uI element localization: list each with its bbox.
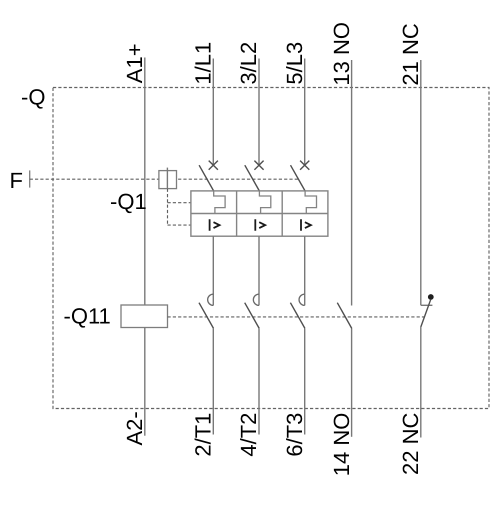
svg-text:-Q: -Q: [21, 84, 45, 109]
breaker housing middle line: [191, 213, 328, 215]
breaker contact cross pole 2: [254, 161, 263, 170]
wire 5/L3: [304, 59, 306, 166]
wire pole 1 below housing: [212, 236, 214, 305]
aux NC fixed contact bar: [421, 304, 433, 306]
svg-text:5/L3: 5/L3: [282, 42, 307, 85]
svg-text:-Q11: -Q11: [64, 304, 111, 329]
terminal square F: [159, 171, 177, 189]
trip linkage dashed line from F: [30, 178, 299, 180]
svg-text:1/L1: 1/L1: [191, 42, 216, 85]
wire A1 (top): [144, 58, 146, 306]
wire 3/L2: [258, 59, 260, 166]
trip linkage dashed branch to magnetic release: [168, 202, 191, 204]
svg-text:14 NO: 14 NO: [329, 413, 354, 477]
breaker blade pole 1: [199, 165, 214, 191]
svg-text:21 NC: 21 NC: [398, 23, 423, 85]
magnetic release latch pole 3: [305, 191, 316, 214]
mechanical linkage dashed (coil to contacts): [168, 316, 425, 318]
svg-text:3/L2: 3/L2: [236, 42, 261, 85]
wire A2 (bottom of coil): [144, 328, 146, 436]
main contact blade pole 1: [199, 303, 214, 329]
overload release symbol I> pole 3: [301, 219, 311, 231]
wire pole 3 below housing: [304, 236, 306, 305]
breaker blade pole 2: [245, 165, 260, 191]
overload release symbol I> pole 1: [210, 219, 220, 231]
svg-text:22 NC: 22 NC: [398, 412, 423, 474]
overload release symbol I> pole 2: [255, 219, 265, 231]
wire 2/T1: [212, 328, 214, 434]
wire 14 NO: [351, 329, 353, 437]
wire 13 NO: [351, 60, 353, 306]
wire pole 2 below housing: [258, 236, 260, 305]
breaker contact cross pole 3: [300, 161, 309, 170]
breaker housing divider 1: [236, 191, 238, 236]
svg-text:13 NO: 13 NO: [329, 22, 354, 86]
trip linkage dashed branch to overload release: [168, 224, 191, 226]
enclosure border -Q (dashed): [53, 88, 489, 409]
coil -Q11: [121, 305, 168, 328]
svg-text:-Q1: -Q1: [110, 189, 147, 214]
wire 1/L1: [212, 59, 214, 166]
main contact arc pole 3: [299, 294, 305, 305]
trip linkage dashed vertical below F square: [167, 189, 169, 225]
main contact blade pole 3: [290, 303, 305, 329]
wire through F square: [166, 168, 168, 189]
wire 6/T3: [304, 328, 306, 434]
aux NC blade: [421, 300, 431, 327]
breaker -Q1 housing: [191, 191, 328, 236]
magnetic release latch pole 1: [214, 191, 225, 214]
breaker contact cross pole 1: [209, 161, 218, 170]
magnetic release latch pole 2: [259, 191, 270, 214]
main contact blade pole 2: [245, 303, 260, 329]
wire 21 NC: [420, 60, 422, 305]
svg-text:A1+: A1+: [122, 43, 147, 83]
wire 22 NC: [420, 327, 422, 438]
main contact arc pole 2: [253, 294, 259, 305]
aux NO contact blade: [337, 303, 352, 329]
main contact arc pole 1: [208, 294, 214, 305]
wire 4/T2: [258, 328, 260, 434]
svg-text:2/T1: 2/T1: [191, 413, 216, 457]
aux NC dot: [428, 294, 434, 300]
svg-text:4/T2: 4/T2: [236, 413, 261, 457]
terminal tick F: [29, 170, 31, 187]
svg-text:A2-: A2-: [122, 411, 147, 445]
breaker housing divider 2: [281, 191, 283, 236]
svg-text:6/T3: 6/T3: [282, 413, 307, 457]
svg-text:F: F: [10, 168, 23, 193]
breaker blade pole 3: [291, 165, 306, 191]
